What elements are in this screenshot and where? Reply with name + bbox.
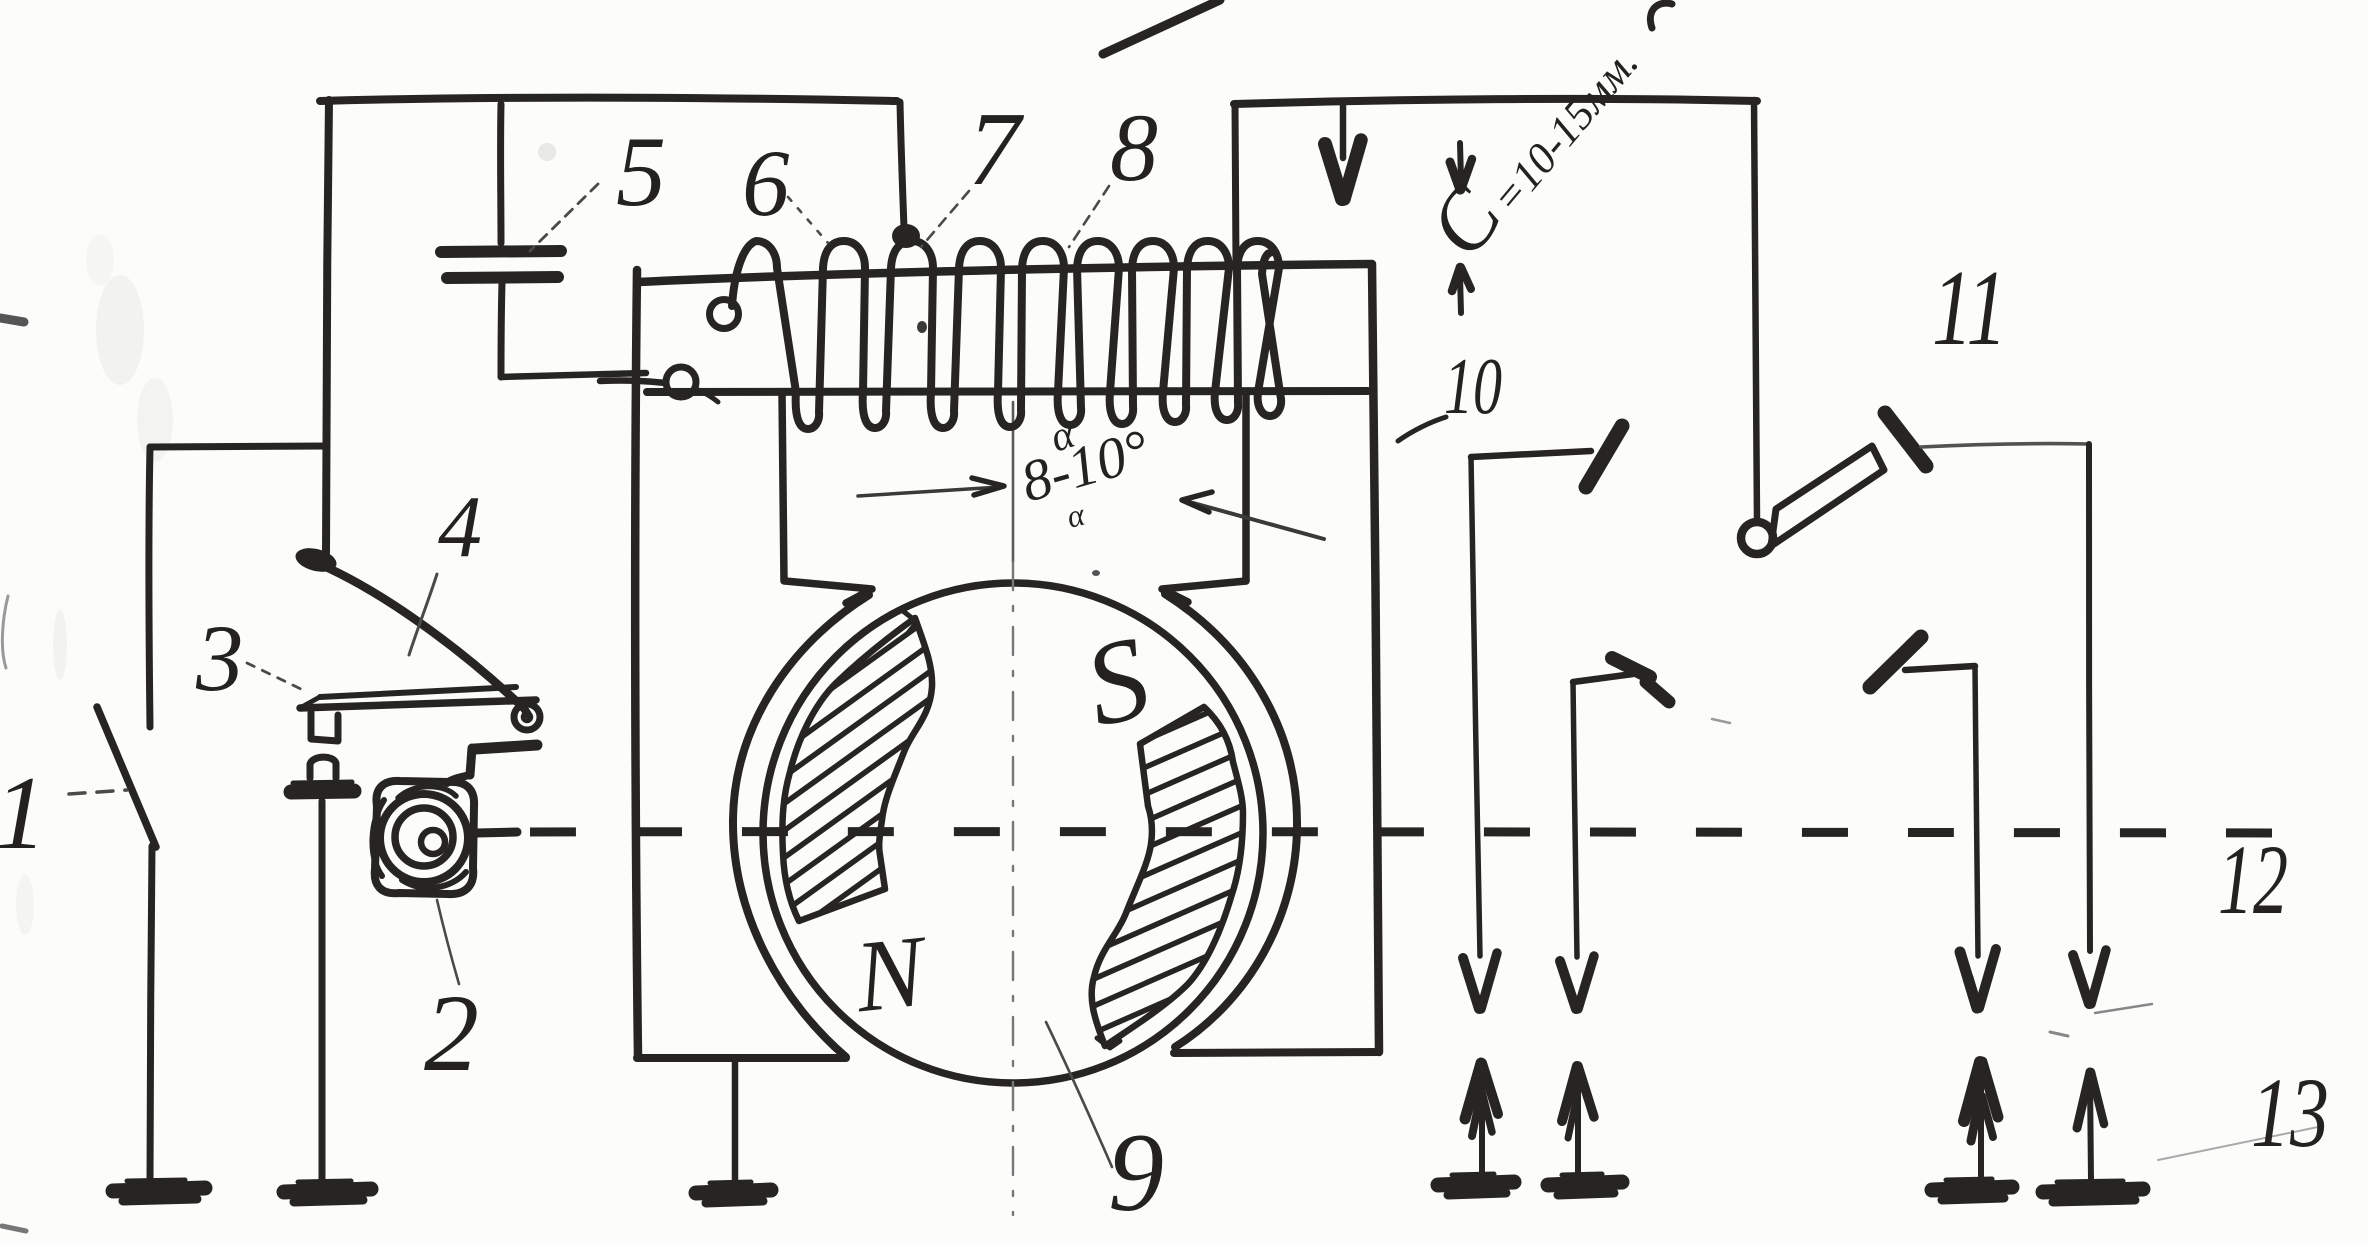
svg-text:12: 12 [2218, 824, 2288, 935]
svg-text:3: 3 [195, 605, 244, 711]
svg-text:2: 2 [424, 972, 479, 1094]
svg-text:13: 13 [2251, 1057, 2329, 1168]
svg-text:1: 1 [0, 754, 47, 871]
svg-text:4: 4 [438, 479, 482, 576]
svg-text:6: 6 [742, 130, 790, 236]
svg-text:8: 8 [1110, 94, 1158, 201]
svg-text:10: 10 [1444, 343, 1502, 431]
svg-text:5: 5 [616, 116, 666, 227]
svg-text:7: 7 [968, 90, 1025, 207]
svg-text:9: 9 [1108, 1111, 1164, 1235]
svg-text:11: 11 [1932, 249, 2007, 368]
